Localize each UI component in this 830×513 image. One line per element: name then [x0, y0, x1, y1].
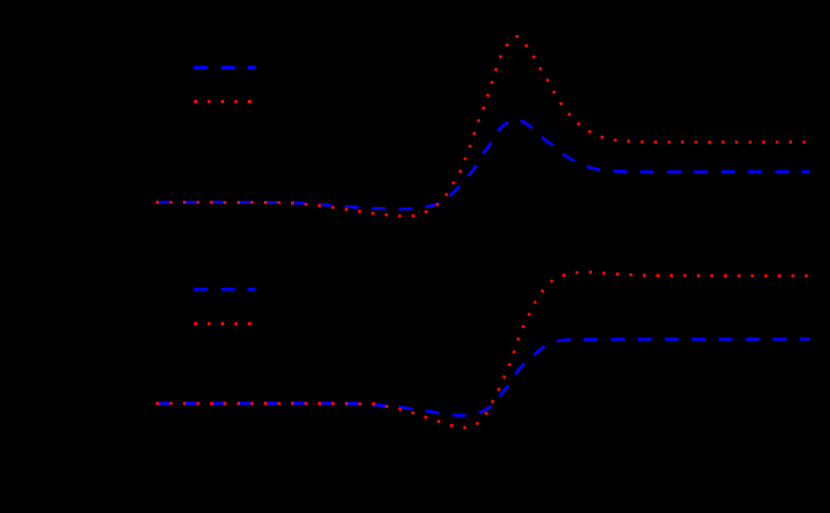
legend 1 red dotted sample [194, 100, 252, 103]
legend 2 blue dashed sample [194, 288, 255, 291]
legend 2 red dotted sample [194, 322, 252, 325]
legend 1 blue dashed sample [194, 66, 255, 69]
bottom panel red dotted curve [156, 272, 810, 427]
bottom panel blue dashed curve [156, 339, 810, 415]
top panel blue dashed curve [156, 119, 810, 209]
top panel red dotted curve [156, 37, 810, 217]
